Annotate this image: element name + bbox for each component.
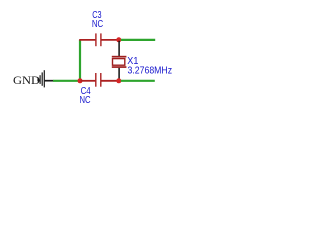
svg-text:NC: NC: [80, 95, 91, 106]
capacitor C4 right plate: [100, 73, 101, 87]
capacitor C3 left pin: [79, 39, 95, 41]
capacitor C3 right plate: [100, 33, 101, 46]
capacitor C4 right pin: [101, 80, 119, 82]
crystal X1 top pin (black): [118, 41, 120, 57]
junction dot node A: [78, 78, 83, 83]
capacitor C4 left pin: [81, 80, 96, 82]
capacitor C4 left plate: [95, 73, 96, 87]
capacitor C3 right pin: [101, 39, 118, 41]
wire top node to right (green): [121, 39, 155, 41]
crystal X1 bottom pin (black): [118, 68, 120, 80]
wire GND to node A (green): [53, 80, 80, 82]
ground symbol bar 4 (tallest): [44, 70, 45, 87]
junction dot bottom node: [116, 78, 121, 83]
crystal X1 bottom plate: [112, 66, 127, 68]
wire bottom node to right (green): [121, 80, 155, 82]
ground symbol bar 3: [42, 72, 43, 85]
svg-text:NC: NC: [92, 19, 103, 30]
capacitor C3 left plate: [95, 33, 96, 46]
ground symbol bar 2: [40, 75, 41, 84]
crystal X1 top plate: [112, 56, 127, 58]
wire vertical riser (green): [79, 40, 81, 81]
svg-text:GND: GND: [13, 73, 40, 87]
ground symbol bar 1 (shortest): [37, 78, 38, 81]
ground stub wire (black): [45, 80, 54, 82]
crystal X1 body rectangle: [113, 59, 125, 66]
junction dot top node: [116, 37, 121, 42]
svg-text:3.2768MHz: 3.2768MHz: [128, 65, 173, 76]
